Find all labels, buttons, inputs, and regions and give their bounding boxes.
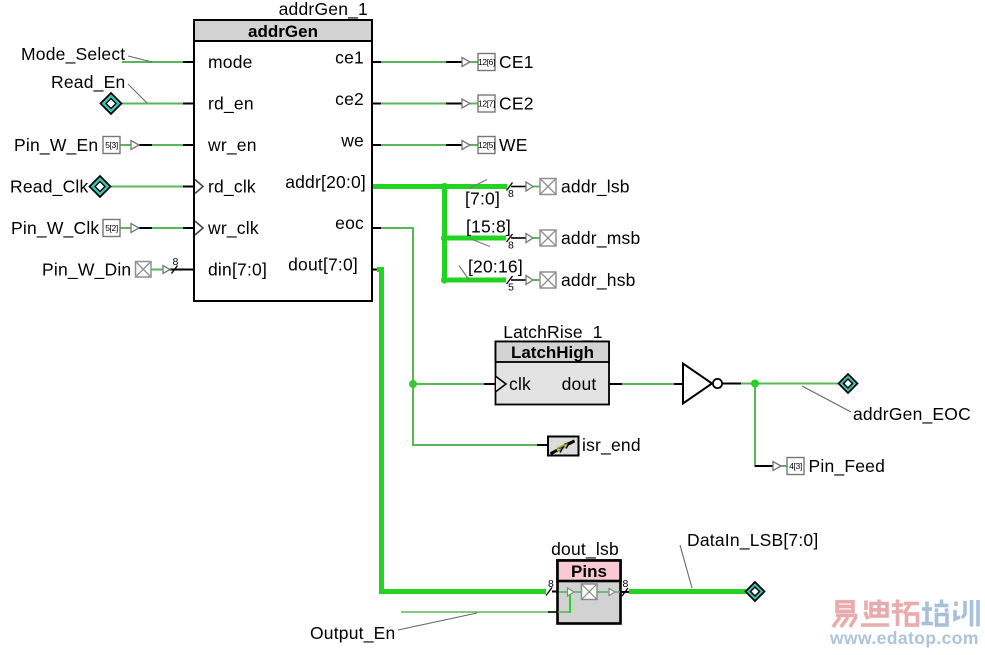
svg-text:dout: dout <box>562 374 597 394</box>
svg-text:5: 5 <box>508 282 514 294</box>
svg-text:CE1: CE1 <box>499 52 534 72</box>
svg-text:5[2]: 5[2] <box>105 223 118 233</box>
svg-text:addr[20:0]: addr[20:0] <box>285 172 366 192</box>
svg-text:5[3]: 5[3] <box>105 140 118 150</box>
svg-text:LatchRise_1: LatchRise_1 <box>503 322 602 343</box>
svg-text:12[7]: 12[7] <box>478 99 495 109</box>
svg-text:ce2: ce2 <box>335 89 364 109</box>
svg-text:rd_clk: rd_clk <box>208 177 256 198</box>
svg-text:dout_lsb: dout_lsb <box>551 539 619 560</box>
svg-text:[20:16]: [20:16] <box>468 257 523 277</box>
svg-text:clk: clk <box>509 374 531 394</box>
svg-text:addr_lsb: addr_lsb <box>561 177 630 198</box>
svg-text:Pin_W_Clk: Pin_W_Clk <box>11 218 99 239</box>
svg-text:addrGen_EOC: addrGen_EOC <box>853 404 971 425</box>
svg-text:Mode_Select: Mode_Select <box>21 44 125 65</box>
svg-text:8: 8 <box>623 578 629 590</box>
svg-text:addrGen: addrGen <box>248 22 318 41</box>
svg-text:4[3]: 4[3] <box>789 461 802 471</box>
svg-text:mode: mode <box>208 52 253 72</box>
svg-text:www.edatop.com: www.edatop.com <box>829 628 979 648</box>
svg-text:wr_en: wr_en <box>207 135 257 156</box>
svg-text:[7:0]: [7:0] <box>465 189 500 209</box>
svg-text:Read_En: Read_En <box>51 72 125 93</box>
svg-text:isr_end: isr_end <box>582 435 641 456</box>
svg-text:8: 8 <box>508 188 514 200</box>
svg-text:we: we <box>340 131 364 151</box>
svg-text:wr_clk: wr_clk <box>207 218 259 239</box>
svg-text:addrGen_1: addrGen_1 <box>279 0 368 20</box>
svg-text:LatchHigh: LatchHigh <box>511 343 594 362</box>
svg-text:DataIn_LSB[7:0]: DataIn_LSB[7:0] <box>687 530 818 551</box>
svg-text:Pin_Feed: Pin_Feed <box>809 456 886 477</box>
svg-text:addr_msb: addr_msb <box>561 228 640 249</box>
svg-text:12[5]: 12[5] <box>478 140 495 150</box>
svg-text:[15:8]: [15:8] <box>466 217 511 237</box>
svg-text:Pin_W_Din: Pin_W_Din <box>42 260 131 281</box>
svg-text:Pins: Pins <box>571 562 607 581</box>
svg-text:8: 8 <box>508 240 514 252</box>
svg-text:addr_hsb: addr_hsb <box>561 270 636 291</box>
svg-text:8: 8 <box>173 256 179 268</box>
svg-text:WE: WE <box>499 135 528 155</box>
svg-text:Output_En: Output_En <box>310 623 395 644</box>
svg-text:CE2: CE2 <box>499 94 534 114</box>
svg-text:Pin_W_En: Pin_W_En <box>14 135 98 156</box>
svg-text:dout[7:0]: dout[7:0] <box>288 255 358 275</box>
svg-text:rd_en: rd_en <box>208 94 254 115</box>
svg-text:ce1: ce1 <box>335 48 364 68</box>
svg-text:Read_Clk: Read_Clk <box>10 177 88 198</box>
svg-text:8: 8 <box>548 578 554 590</box>
svg-text:eoc: eoc <box>335 213 364 233</box>
svg-text:12[6]: 12[6] <box>478 57 495 67</box>
svg-text:din[7:0]: din[7:0] <box>208 260 267 280</box>
